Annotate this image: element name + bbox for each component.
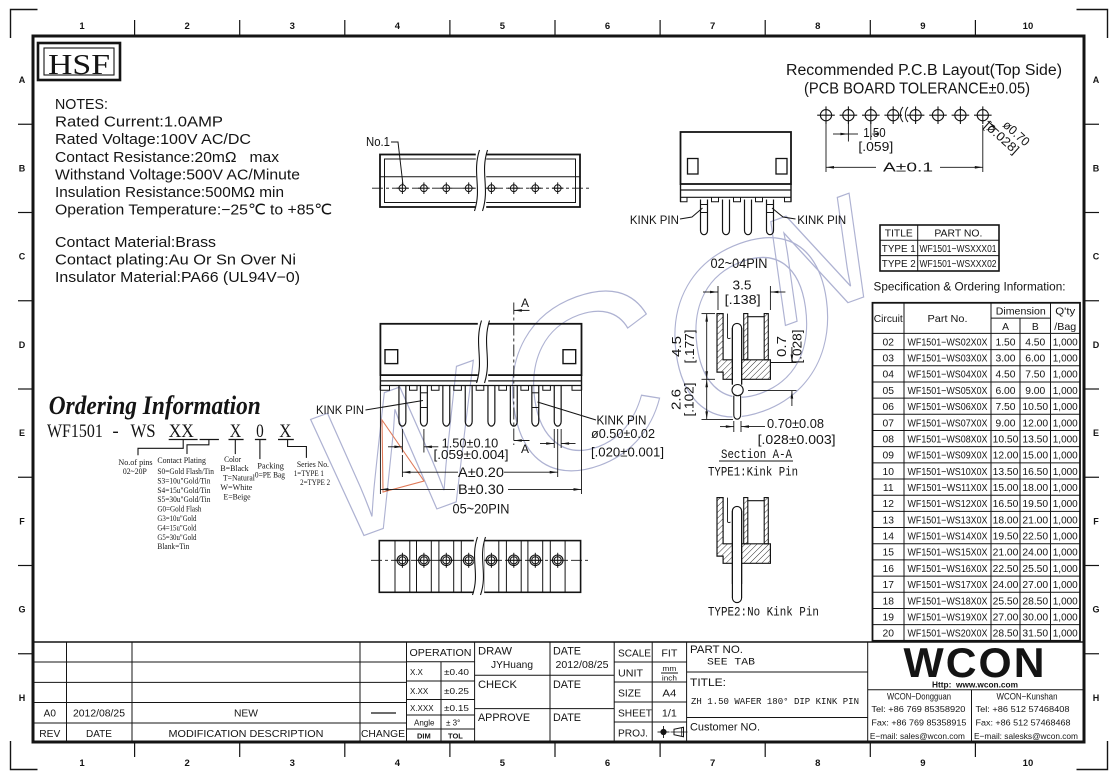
- svg-text:PART NO.: PART NO.: [934, 228, 982, 240]
- svg-text:25.50: 25.50: [1022, 564, 1048, 575]
- svg-text:TOL: TOL: [448, 732, 463, 741]
- svg-text:T=Natural: T=Natural: [223, 473, 255, 483]
- svg-text:WF1501−WS10X0X: WF1501−WS10X0X: [908, 467, 988, 478]
- svg-text:DRAW: DRAW: [478, 646, 513, 658]
- svg-text:Contact Material:Brass: Contact Material:Brass: [55, 235, 216, 251]
- svg-text:HSF: HSF: [48, 49, 110, 81]
- svg-text:CHANGE: CHANGE: [361, 729, 405, 740]
- svg-text:Q'ty: Q'ty: [1055, 307, 1076, 318]
- svg-text:E: E: [1093, 428, 1099, 438]
- svg-text:DATE: DATE: [553, 646, 581, 658]
- svg-text:12.00: 12.00: [993, 451, 1019, 462]
- svg-text:WF1501−WS17X0X: WF1501−WS17X0X: [908, 580, 988, 591]
- svg-text:Contact Plating: Contact Plating: [157, 455, 206, 465]
- svg-text:1,000: 1,000: [1053, 580, 1078, 591]
- svg-text:NOTES:: NOTES:: [55, 97, 108, 113]
- svg-text:6.00: 6.00: [1025, 354, 1045, 365]
- svg-text:2=TYPE 2: 2=TYPE 2: [300, 477, 330, 487]
- svg-text:Withstand Voltage:500V AC/Minu: Withstand Voltage:500V AC/Minute: [55, 167, 300, 183]
- svg-text:1,000: 1,000: [1053, 418, 1078, 429]
- svg-text:1,000: 1,000: [1053, 548, 1078, 559]
- svg-text:3.5: 3.5: [733, 279, 752, 293]
- svg-text:1,000: 1,000: [1053, 515, 1078, 526]
- svg-text:WF1501−WS08X0X: WF1501−WS08X0X: [908, 434, 988, 445]
- svg-text:2: 2: [185, 758, 190, 769]
- svg-text:WF1501−WS14X0X: WF1501−WS14X0X: [908, 532, 988, 543]
- svg-text:Part No.: Part No.: [928, 313, 968, 325]
- svg-text:07: 07: [883, 418, 895, 429]
- svg-text:18.00: 18.00: [1022, 483, 1048, 494]
- svg-text:04: 04: [883, 370, 895, 381]
- svg-text:08: 08: [883, 434, 895, 445]
- svg-text:WCON−Dongguan: WCON−Dongguan: [887, 692, 951, 702]
- svg-text:1,000: 1,000: [1053, 451, 1078, 462]
- svg-text:WF1501−WS04X0X: WF1501−WS04X0X: [908, 370, 988, 381]
- svg-text:B: B: [1093, 163, 1100, 173]
- svg-text:KINK PIN: KINK PIN: [630, 213, 679, 227]
- svg-text:13: 13: [883, 515, 895, 526]
- svg-text:22.50: 22.50: [1022, 532, 1048, 543]
- svg-text:G: G: [1092, 605, 1099, 615]
- svg-text:18.00: 18.00: [993, 515, 1019, 526]
- svg-text:APPROVE: APPROVE: [478, 712, 530, 724]
- svg-text:E: E: [19, 428, 25, 438]
- svg-text:6: 6: [605, 758, 610, 769]
- svg-text:0.70±0.08: 0.70±0.08: [767, 417, 824, 431]
- svg-text:B: B: [19, 163, 26, 173]
- svg-text:W=White: W=White: [220, 482, 252, 492]
- svg-text:H: H: [19, 693, 26, 703]
- svg-text:PART NO.: PART NO.: [690, 644, 743, 656]
- svg-text:Rated Voltage:100V AC/DC: Rated Voltage:100V AC/DC: [55, 132, 251, 148]
- svg-text:WF1501−WS19X0X: WF1501−WS19X0X: [908, 612, 988, 623]
- svg-text:03: 03: [883, 354, 895, 365]
- svg-text:E−mail: salesks@wcon.com: E−mail: salesks@wcon.com: [974, 731, 1078, 741]
- svg-text:±0.25: ±0.25: [444, 687, 470, 696]
- svg-text:A: A: [19, 75, 26, 85]
- svg-text:02: 02: [883, 337, 895, 348]
- svg-text:TYPE2:No Kink Pin: TYPE2:No Kink Pin: [708, 605, 819, 620]
- svg-text:DATE: DATE: [553, 679, 581, 691]
- svg-text:F: F: [19, 516, 25, 526]
- svg-text:22.50: 22.50: [993, 564, 1019, 575]
- svg-text:21.00: 21.00: [993, 548, 1019, 559]
- svg-text:1,000: 1,000: [1053, 499, 1078, 510]
- svg-text:Blank=Tin: Blank=Tin: [157, 541, 190, 551]
- svg-text:25.50: 25.50: [993, 596, 1019, 607]
- svg-text:1,000: 1,000: [1053, 434, 1078, 445]
- svg-text:5: 5: [500, 21, 506, 32]
- svg-text:X.X: X.X: [410, 668, 424, 677]
- svg-text:E=Beige: E=Beige: [224, 492, 251, 502]
- svg-text:NEW: NEW: [234, 709, 259, 720]
- svg-text:SEE TAB: SEE TAB: [707, 658, 755, 669]
- svg-text:TYPE 1: TYPE 1: [882, 243, 916, 255]
- svg-text:No.1: No.1: [366, 135, 390, 149]
- svg-text:19.50: 19.50: [1022, 499, 1048, 510]
- svg-text:6.00: 6.00: [995, 386, 1015, 397]
- svg-text:WF1501−WS13X0X: WF1501−WS13X0X: [908, 515, 988, 526]
- svg-text:ZH 1.50 WAFER 180° DIP KINK PI: ZH 1.50 WAFER 180° DIP KINK PIN: [691, 696, 859, 707]
- svg-text:WF1501−WS15X0X: WF1501−WS15X0X: [908, 548, 988, 559]
- svg-text:A±0.1: A±0.1: [883, 160, 933, 175]
- svg-text:4.50: 4.50: [995, 370, 1015, 381]
- svg-text:1,000: 1,000: [1053, 467, 1078, 478]
- svg-text:9.00: 9.00: [995, 418, 1015, 429]
- svg-text:1.50: 1.50: [863, 126, 885, 140]
- svg-text:PROJ.: PROJ.: [618, 728, 648, 740]
- svg-text:X.XXX: X.XXX: [410, 704, 434, 713]
- svg-text:02~04PIN: 02~04PIN: [711, 256, 768, 271]
- svg-text:7: 7: [710, 758, 715, 769]
- svg-text:DATE: DATE: [553, 712, 581, 724]
- svg-text:20: 20: [883, 629, 895, 640]
- svg-text:± 3°: ± 3°: [446, 719, 460, 728]
- svg-text:Dimension: Dimension: [996, 307, 1046, 318]
- svg-text:27.00: 27.00: [1022, 580, 1048, 591]
- svg-text:Specification & Ordering Infor: Specification & Ordering Information:: [874, 280, 1066, 294]
- svg-text:15.00: 15.00: [993, 483, 1019, 494]
- svg-text:UNIT: UNIT: [618, 668, 644, 680]
- svg-text:mm: mm: [662, 664, 676, 673]
- svg-text:A: A: [1002, 322, 1009, 333]
- svg-text:[.020±0.001]: [.020±0.001]: [591, 446, 664, 460]
- svg-text:WF1501−WS16X0X: WF1501−WS16X0X: [908, 564, 988, 575]
- svg-text:WF1501−WS03X0X: WF1501−WS03X0X: [908, 354, 988, 365]
- svg-text:1,000: 1,000: [1053, 629, 1078, 640]
- svg-text:1,000: 1,000: [1053, 386, 1078, 397]
- svg-text:Contact Resistance:20mΩ max: Contact Resistance:20mΩ max: [55, 150, 280, 166]
- svg-text:4: 4: [395, 21, 401, 32]
- svg-text:1,000: 1,000: [1053, 337, 1078, 348]
- svg-text:28.50: 28.50: [1022, 596, 1048, 607]
- svg-text:D: D: [19, 340, 26, 350]
- svg-text:12.00: 12.00: [1022, 418, 1048, 429]
- svg-text:[.028]: [.028]: [791, 330, 805, 364]
- svg-text:5: 5: [500, 758, 506, 769]
- svg-text:2: 2: [185, 21, 190, 32]
- svg-text:WF1501−WS02X0X: WF1501−WS02X0X: [908, 337, 988, 348]
- svg-text:3: 3: [290, 758, 295, 769]
- svg-text:8: 8: [815, 758, 820, 769]
- svg-text:1,000: 1,000: [1053, 370, 1078, 381]
- svg-text:02~20P: 02~20P: [123, 467, 147, 476]
- svg-text:±0.40: ±0.40: [444, 668, 470, 677]
- svg-text:24.00: 24.00: [1022, 548, 1048, 559]
- svg-text:19: 19: [883, 612, 895, 623]
- svg-text:1: 1: [79, 758, 85, 769]
- svg-text:15: 15: [883, 548, 895, 559]
- svg-text:21.00: 21.00: [1022, 515, 1048, 526]
- svg-text:15.00: 15.00: [1022, 451, 1048, 462]
- svg-text:16.50: 16.50: [1022, 467, 1048, 478]
- svg-text:Http: www.wcon.com: Http: www.wcon.com: [932, 680, 1018, 690]
- svg-text:16.50: 16.50: [993, 499, 1019, 510]
- svg-text:TITLE: TITLE: [885, 228, 913, 240]
- svg-text:DATE: DATE: [86, 729, 112, 740]
- svg-text:WF1501−WS20X0X: WF1501−WS20X0X: [908, 629, 988, 640]
- svg-text:1: 1: [79, 21, 85, 32]
- svg-text:WF1501: WF1501: [47, 421, 103, 442]
- svg-text:H: H: [1093, 693, 1100, 703]
- svg-text:WF1501−WS12X0X: WF1501−WS12X0X: [908, 499, 988, 510]
- svg-text:[.059±0.004]: [.059±0.004]: [434, 447, 509, 462]
- svg-text:[.059]: [.059]: [858, 140, 893, 154]
- svg-text:WF1501−WS09X0X: WF1501−WS09X0X: [908, 451, 988, 462]
- svg-text:KINK PIN: KINK PIN: [316, 403, 364, 417]
- svg-text:1,000: 1,000: [1053, 612, 1078, 623]
- svg-text:KINK PIN: KINK PIN: [597, 414, 647, 428]
- svg-text:1,000: 1,000: [1053, 532, 1078, 543]
- svg-text:[.028±0.003]: [.028±0.003]: [758, 433, 836, 447]
- svg-text:11: 11: [883, 483, 894, 494]
- svg-text:(PCB BOARD TOLERANCE±0.05): (PCB BOARD TOLERANCE±0.05): [804, 81, 1030, 98]
- svg-text:4: 4: [395, 758, 401, 769]
- svg-text:7: 7: [710, 21, 715, 32]
- svg-text:Rated Current:1.0AMP: Rated Current:1.0AMP: [55, 115, 223, 131]
- svg-text:Ordering Information: Ordering Information: [49, 391, 261, 420]
- svg-text:13.50: 13.50: [993, 467, 1019, 478]
- svg-text:6: 6: [605, 21, 610, 32]
- svg-text:WF1501−WSXXX02: WF1501−WSXXX02: [920, 259, 997, 270]
- svg-text:3.00: 3.00: [995, 354, 1015, 365]
- svg-text:12: 12: [883, 499, 895, 510]
- svg-text:16: 16: [883, 564, 895, 575]
- svg-text:DIM: DIM: [417, 732, 431, 741]
- svg-text:MODIFICATION DESCRIPTION: MODIFICATION DESCRIPTION: [169, 728, 324, 740]
- svg-text:1.50: 1.50: [995, 337, 1015, 348]
- svg-text:JYHuang: JYHuang: [491, 659, 533, 671]
- svg-text:TITLE:: TITLE:: [690, 677, 726, 689]
- svg-text:SHEET: SHEET: [618, 708, 653, 720]
- svg-text:±0.15: ±0.15: [444, 704, 470, 713]
- svg-text:G: G: [18, 605, 25, 615]
- svg-text:[.138]: [.138]: [725, 293, 761, 307]
- svg-text:REV: REV: [39, 729, 60, 740]
- svg-text:1,000: 1,000: [1053, 483, 1078, 494]
- svg-text:Circuit: Circuit: [874, 314, 903, 325]
- svg-text:FIT: FIT: [661, 648, 678, 660]
- svg-text:Tel: +86 512 57468408: Tel: +86 512 57468408: [976, 704, 1070, 714]
- svg-text:[.177]: [.177]: [683, 330, 697, 364]
- svg-text:10: 10: [883, 467, 895, 478]
- svg-text:9: 9: [920, 758, 925, 769]
- svg-text:TYPE1:Kink Pin: TYPE1:Kink Pin: [708, 465, 798, 480]
- svg-text:TYPE 2: TYPE 2: [882, 258, 916, 270]
- svg-text:X.XX: X.XX: [410, 687, 429, 696]
- svg-text:SCALE: SCALE: [618, 648, 651, 660]
- svg-text:WF1501−WSXXX01: WF1501−WSXXX01: [920, 244, 997, 255]
- svg-text:A0: A0: [44, 709, 57, 720]
- svg-text:Fax: +86 769 85358915: Fax: +86 769 85358915: [871, 718, 966, 728]
- svg-text:10: 10: [1023, 758, 1034, 769]
- svg-text:Tel: +86 769 85358920: Tel: +86 769 85358920: [871, 704, 965, 714]
- svg-text:28.50: 28.50: [993, 629, 1019, 640]
- svg-text:C: C: [19, 252, 26, 262]
- svg-text:13.50: 13.50: [1022, 434, 1048, 445]
- svg-text:Operation Temperature:−25℃ to: Operation Temperature:−25℃ to +85℃: [55, 203, 332, 219]
- svg-text:06: 06: [883, 402, 895, 413]
- svg-text:0=PE Bag: 0=PE Bag: [255, 470, 286, 480]
- svg-text:10.50: 10.50: [1022, 402, 1048, 413]
- svg-text:C: C: [1093, 252, 1100, 262]
- svg-text:24.00: 24.00: [993, 580, 1019, 591]
- svg-text:2012/08/25: 2012/08/25: [73, 709, 125, 720]
- svg-text:WS: WS: [131, 421, 156, 442]
- svg-text:7.50: 7.50: [1025, 370, 1045, 381]
- svg-text:18: 18: [883, 596, 895, 607]
- svg-text:WF1501−WS06X0X: WF1501−WS06X0X: [908, 402, 988, 413]
- svg-text:WF1501−WS07X0X: WF1501−WS07X0X: [908, 418, 988, 429]
- svg-text:1,000: 1,000: [1053, 402, 1078, 413]
- svg-text:05~20PIN: 05~20PIN: [453, 502, 510, 517]
- svg-text:Insulation Resistance:500MΩ mi: Insulation Resistance:500MΩ min: [55, 185, 284, 201]
- svg-text:WF1501−WS05X0X: WF1501−WS05X0X: [908, 386, 988, 397]
- svg-text:CHECK: CHECK: [478, 679, 518, 691]
- svg-text:KINK PIN: KINK PIN: [797, 213, 846, 227]
- svg-text:WCON−Kunshan: WCON−Kunshan: [997, 692, 1058, 702]
- svg-text:WF1501−WS11X0X: WF1501−WS11X0X: [908, 483, 988, 494]
- svg-text:14: 14: [883, 532, 895, 543]
- svg-text:B: B: [1032, 322, 1039, 333]
- svg-text:1,000: 1,000: [1053, 354, 1078, 365]
- svg-text:05: 05: [883, 386, 895, 397]
- svg-text:A: A: [521, 296, 529, 310]
- svg-text:09: 09: [883, 451, 895, 462]
- svg-text:D: D: [1093, 340, 1100, 350]
- svg-text:30.00: 30.00: [1022, 612, 1048, 623]
- svg-text:Angle: Angle: [414, 719, 435, 728]
- svg-text:F: F: [1093, 516, 1099, 526]
- svg-text:2012/08/25: 2012/08/25: [556, 659, 609, 671]
- svg-text:17: 17: [883, 580, 895, 591]
- svg-text:inch: inch: [662, 674, 677, 683]
- svg-text:4.5: 4.5: [670, 336, 684, 357]
- svg-text:19.50: 19.50: [993, 532, 1019, 543]
- svg-text:0.7: 0.7: [775, 336, 789, 357]
- svg-text:A±0.20: A±0.20: [458, 465, 504, 480]
- svg-text:A: A: [521, 442, 529, 456]
- svg-text:Fax: +86 512 57468468: Fax: +86 512 57468468: [976, 718, 1071, 728]
- svg-text:Recommended P.C.B Layout(Top S: Recommended P.C.B Layout(Top Side): [786, 62, 1062, 79]
- svg-text:27.00: 27.00: [993, 612, 1019, 623]
- svg-text:A: A: [1093, 75, 1100, 85]
- svg-text:Contact plating:Au Or Sn Over: Contact plating:Au Or Sn Over Ni: [55, 253, 296, 269]
- svg-text:9: 9: [920, 21, 925, 32]
- svg-text:OPERATION: OPERATION: [410, 648, 472, 659]
- svg-text:9.00: 9.00: [1025, 386, 1045, 397]
- svg-text:Section A-A: Section A-A: [721, 447, 792, 462]
- svg-text:10.50: 10.50: [993, 434, 1019, 445]
- svg-text:[.102]: [.102]: [683, 383, 697, 417]
- svg-text:1,000: 1,000: [1053, 596, 1078, 607]
- svg-text:Customer NO.: Customer NO.: [690, 722, 760, 734]
- svg-text:1,000: 1,000: [1053, 564, 1078, 575]
- svg-text:/Bag: /Bag: [1054, 322, 1076, 333]
- svg-text:4.50: 4.50: [1025, 337, 1045, 348]
- svg-text:-: -: [112, 421, 118, 442]
- svg-text:3: 3: [290, 21, 295, 32]
- svg-text:E−mail: sales@wcon.com: E−mail: sales@wcon.com: [870, 731, 965, 741]
- svg-text:1/1: 1/1: [662, 708, 677, 720]
- svg-text:ø0.50±0.02: ø0.50±0.02: [591, 427, 655, 441]
- svg-text:2.6: 2.6: [670, 389, 684, 410]
- svg-text:A4: A4: [662, 688, 676, 700]
- svg-text:31.50: 31.50: [1022, 629, 1048, 640]
- svg-text:B=Black: B=Black: [220, 463, 249, 473]
- svg-text:WF1501−WS18X0X: WF1501−WS18X0X: [908, 596, 988, 607]
- svg-text:No.of pins: No.of pins: [118, 458, 152, 467]
- svg-text:7.50: 7.50: [995, 402, 1015, 413]
- svg-text:Insulator Material:PA66 (UL94V: Insulator Material:PA66 (UL94V−0): [55, 270, 300, 286]
- svg-text:8: 8: [815, 21, 820, 32]
- svg-text:SIZE: SIZE: [618, 688, 641, 700]
- svg-text:B±0.30: B±0.30: [458, 482, 504, 497]
- svg-text:10: 10: [1023, 21, 1034, 32]
